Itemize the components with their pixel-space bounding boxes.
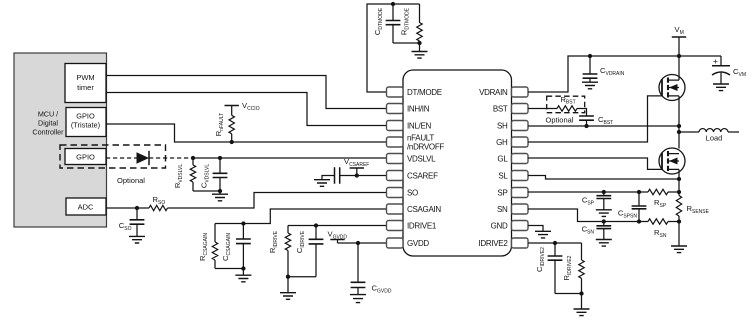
svg-text:+: +	[713, 56, 718, 66]
resistor RSP	[648, 189, 668, 194]
resistor RSO	[149, 205, 168, 210]
svg-text:VDSLVL: VDSLVL	[407, 154, 436, 163]
ground VDSLVL	[219, 191, 221, 194]
capacitor CGVDD	[357, 243, 359, 282]
svg-text:Optional: Optional	[546, 116, 574, 125]
ground CSAGAIN	[242, 269, 244, 276]
node RSENSE bottom junction	[677, 219, 681, 223]
wire RBST to CBST	[577, 109, 587, 117]
capacitor CIDRIVE2	[554, 243, 556, 256]
inductor Load	[679, 131, 699, 133]
PWM timer box	[65, 64, 106, 103]
svg-text:IDRIVE1: IDRIVE1	[407, 221, 437, 230]
GPIO box	[65, 149, 106, 165]
wire DTMODE bottom rail	[393, 42, 420, 44]
wire diode to node dashed	[149, 157, 193, 159]
wire VDSLVL bottom rail	[193, 190, 220, 192]
VCSAREF supply	[350, 167, 364, 169]
node CSPSN bottom junction	[637, 219, 641, 223]
wire GPIO tristate to nFAULT	[106, 124, 387, 142]
svg-text:CSAREF: CSAREF	[407, 171, 438, 180]
svg-text:SP: SP	[497, 188, 507, 197]
capacitor CSPSN	[638, 192, 640, 206]
capacitor CVDSLVL	[219, 158, 221, 173]
svg-text:CSAGAIN: CSAGAIN	[407, 205, 441, 214]
ADC box	[66, 198, 106, 215]
wire CSAGAIN	[215, 209, 387, 224]
capacitor CSO	[136, 208, 138, 220]
pin CSAGAIN (left)	[387, 204, 404, 214]
wire GVDD	[338, 242, 387, 244]
svg-text:GVDD: GVDD	[407, 239, 429, 248]
ground DTMODE	[419, 43, 421, 52]
pin GND (right)	[512, 221, 529, 231]
svg-text:INH/IN: INH/IN	[407, 104, 430, 113]
svg-text:INL/EN: INL/EN	[407, 121, 432, 130]
pin CSAREF (left)	[387, 171, 404, 181]
pin VDRAIN (right)	[512, 87, 529, 97]
svg-text:Digital: Digital	[38, 119, 58, 128]
diode optional GPIO	[137, 152, 150, 163]
resistor RnFAULT	[231, 106, 233, 116]
pin IDRIVE2 (right)	[512, 238, 529, 248]
node CSP junction	[602, 190, 606, 194]
resistor RCSAGAIN	[214, 224, 216, 243]
resistor RIDRIVE	[287, 226, 289, 234]
pin SN (right)	[512, 204, 529, 214]
ground CGVDD	[350, 295, 366, 303]
svg-text:Optional: Optional	[117, 176, 145, 185]
wire SP rail	[528, 191, 648, 193]
node RDTMODE bottom junction	[417, 41, 421, 45]
svg-text:GL: GL	[497, 154, 508, 163]
node CVDRAIN junction	[588, 54, 592, 58]
svg-text:GH: GH	[496, 138, 508, 147]
node SH switch junction	[677, 124, 681, 128]
svg-text:Load: Load	[706, 134, 723, 143]
wire GH to top FET gate	[528, 96, 662, 142]
svg-text:(Tristate): (Tristate)	[71, 121, 100, 130]
svg-text:GPIO: GPIO	[76, 153, 95, 162]
capacitor CSP	[603, 192, 605, 196]
pin SH (right)	[512, 121, 529, 131]
capacitor CIDRIVE	[315, 226, 317, 240]
svg-text:VDRAIN: VDRAIN	[479, 88, 508, 97]
wire CSAREF	[340, 175, 387, 177]
resistor RVDSLVL	[192, 158, 194, 165]
pin IDRIVE1 (left)	[387, 221, 404, 231]
node Load junction	[677, 130, 681, 134]
resistor RIDRIVE2	[581, 243, 583, 260]
VGVDD supply	[330, 239, 344, 241]
capacitor CCSAGAIN	[242, 224, 244, 240]
svg-text:SN: SN	[497, 205, 508, 214]
wire switch node stack	[678, 126, 680, 149]
gate driver IC U1 body	[403, 70, 512, 256]
RnFAULT label	[214, 113, 225, 136]
capacitor CBST	[579, 116, 594, 120]
node CSN junction	[602, 219, 606, 223]
svg-text:MCU /: MCU /	[38, 110, 58, 119]
node nFAULT / RnFAULT junction	[230, 140, 234, 144]
transistor bottom MOSFET	[659, 148, 685, 174]
ground CSAREF	[314, 180, 330, 187]
ground IDRIVE1	[287, 277, 289, 293]
pin GL (right)	[512, 154, 529, 164]
capacitor CSN	[603, 222, 605, 226]
VM supply	[678, 37, 680, 56]
svg-text:Controller: Controller	[32, 128, 64, 137]
node CCSAGAIN top junction	[241, 221, 245, 225]
wire IDRIVE2	[528, 242, 582, 244]
svg-text:GPIO: GPIO	[76, 112, 95, 121]
capacitor on CSAREF	[335, 167, 340, 183]
node CSAGAIN bottom junction	[241, 266, 245, 270]
node CIDRIVE2 junction	[553, 241, 557, 245]
ground IDRIVE2	[581, 294, 583, 310]
wire DT/MODE to RC network	[367, 4, 420, 92]
node CBST to SH junction	[584, 124, 588, 128]
ground RSENSE	[678, 222, 680, 247]
svg-text:DT/MODE: DT/MODE	[407, 88, 442, 97]
pin BST (right)	[512, 104, 529, 114]
node CSPSN top junction	[637, 190, 641, 194]
wire VDRAIN to VM rail	[528, 56, 721, 92]
resistor RSN	[648, 219, 668, 224]
node VCSAREF junction	[355, 173, 359, 177]
svg-text:IDRIVE2: IDRIVE2	[478, 239, 508, 248]
wire GL to bottom FET gate	[528, 158, 662, 169]
node RVDSLVL junction	[191, 156, 195, 160]
pin GVDD (left)	[387, 238, 404, 248]
node RSENSE top junction	[677, 190, 681, 194]
pin SL (right)	[512, 171, 529, 181]
ground GND pin	[535, 231, 551, 238]
node IDRIVE1 bottom junction	[286, 275, 290, 279]
node SL junction	[677, 177, 681, 181]
pin VDSLVL (left)	[387, 154, 404, 164]
ground CVDRAIN	[582, 82, 598, 89]
wire SN rail	[528, 209, 648, 222]
node CGVDD junction	[356, 241, 360, 245]
pin DT/MODE (left)	[387, 87, 404, 97]
capacitor CDTMODE	[392, 4, 394, 21]
GPIO (Tristate) box	[66, 108, 106, 137]
pin INH/IN (left)	[387, 104, 404, 114]
pin GH (right)	[512, 137, 529, 147]
node IDRIVE2 ground junction	[579, 291, 583, 295]
pin INL/EN (left)	[387, 121, 404, 131]
wire IDRIVE1 bottom rail	[288, 276, 316, 278]
wire IDRIVE1	[288, 225, 387, 227]
node CSO junction	[135, 206, 139, 210]
node VDSLVL bottom junction	[218, 189, 222, 193]
wire IDRIVE2 bottom rail	[555, 293, 582, 295]
wire SH to switch node	[528, 125, 679, 127]
wire BST	[528, 108, 557, 110]
node CDTMODE top junction	[391, 2, 395, 6]
svg-text:BST: BST	[493, 104, 508, 113]
wire VDSLVL solid	[193, 157, 387, 159]
capacitor CVDRAIN	[589, 56, 591, 74]
wire ADC to SO	[106, 207, 149, 209]
pin SP (right)	[512, 188, 529, 198]
ground CVM	[713, 84, 729, 91]
pin nFAULT/nDRVOFF (left)	[387, 137, 404, 147]
svg-text:PWM: PWM	[76, 73, 94, 82]
wire CSAGAIN bottom rail	[215, 268, 243, 270]
resistor RDTMODE	[419, 4, 421, 23]
capacitor CVM electrolytic	[720, 56, 722, 66]
ground CSP	[596, 210, 612, 217]
MCU / Digital Controller block	[14, 53, 107, 227]
node CVDSLVL junction	[218, 156, 222, 160]
node CIDRIVE top junction	[314, 223, 318, 227]
wire PWM to INL/EN	[106, 93, 387, 126]
wire GND pin to ground	[528, 226, 543, 232]
ground CSO	[129, 236, 145, 243]
resistor RBST optional	[557, 106, 577, 111]
svg-text:/nDRVOFF: /nDRVOFF	[407, 142, 444, 151]
ground CSN	[596, 240, 612, 247]
resistor RSENSE	[678, 192, 680, 196]
wire PWM to INH/IN	[106, 76, 387, 109]
svg-text:timer: timer	[77, 83, 94, 92]
svg-text:GND: GND	[491, 221, 508, 230]
optional dashed box around GPIO and diode	[60, 145, 166, 168]
wire GPIO dashed to diode	[106, 157, 137, 159]
transistor top MOSFET	[678, 56, 680, 80]
pin SO (left)	[387, 188, 404, 198]
svg-text:SL: SL	[498, 171, 508, 180]
wire SL	[528, 176, 679, 180]
node VM rail junction	[677, 54, 681, 58]
svg-text:SO: SO	[407, 188, 418, 197]
svg-text:SH: SH	[497, 121, 508, 130]
svg-text:ADC: ADC	[78, 203, 94, 212]
